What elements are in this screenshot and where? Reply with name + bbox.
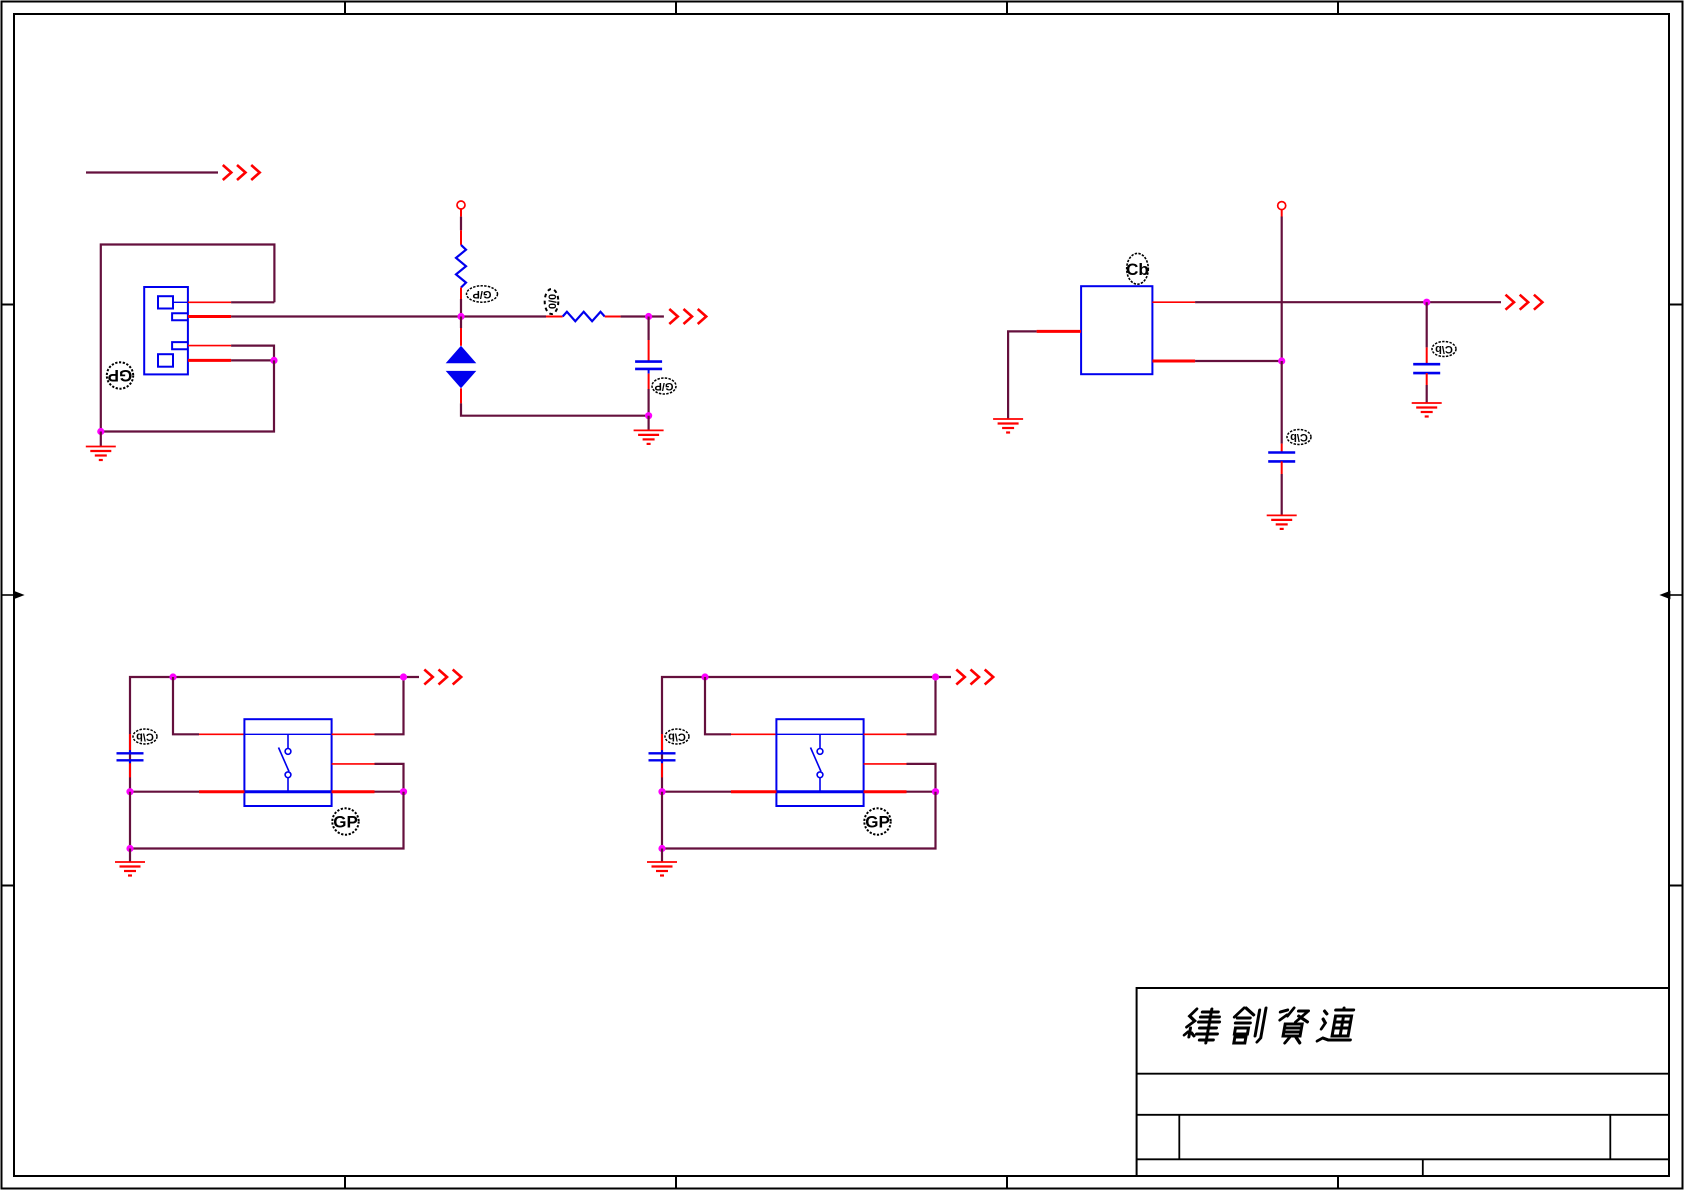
svg-text:G/P: G/P <box>473 288 492 300</box>
frame tick left 2 <box>1 885 14 887</box>
IC Cb circuit <box>993 202 1542 529</box>
wire horizontal net <box>231 315 546 317</box>
junction top rail left <box>701 673 708 680</box>
wire pin1 to top loop <box>231 301 274 303</box>
ground <box>86 432 116 461</box>
frame tick top 4 <box>1337 1 1339 14</box>
connector CN1 body <box>144 287 188 374</box>
wire to ground node <box>647 389 649 416</box>
wire right middle down <box>907 764 936 792</box>
off-page chevrons <box>424 670 461 685</box>
wire bottom net left <box>662 791 731 793</box>
frame tick bottom 4 <box>1337 1176 1339 1189</box>
svg-text:G/P: G/P <box>655 380 674 392</box>
label G/P (rotated) <box>652 378 676 394</box>
wire bottom net left <box>130 791 199 793</box>
junction ground node <box>645 412 652 419</box>
ground <box>647 849 677 876</box>
resistor R2 <box>563 312 605 321</box>
resistor R1 top lead <box>460 230 462 245</box>
pin 3 stub <box>188 345 231 347</box>
switch SW1 bottom pin line <box>244 790 331 793</box>
pin 3 pad <box>172 342 188 349</box>
glyph Tong <box>1317 1008 1356 1041</box>
wire junction C down to cap <box>1426 302 1428 347</box>
wire to output <box>621 315 664 317</box>
wire bottom net right <box>375 791 404 793</box>
resistor R2 left lead <box>546 316 563 318</box>
svg-text:C\b: C\b <box>1290 431 1308 443</box>
label GP <box>864 808 890 834</box>
svg-text:GP: GP <box>333 813 358 832</box>
svg-text:C\b: C\b <box>136 731 154 743</box>
junction top rail right <box>932 673 939 680</box>
pin 2 pad <box>172 313 188 320</box>
switch pin stub right middle <box>864 763 907 765</box>
wire to ground <box>1281 474 1283 515</box>
label GP (rotated) <box>107 362 133 388</box>
capacitor C5 top lead <box>661 734 663 750</box>
switch SW1 body <box>244 719 331 806</box>
frame tick bottom 1 <box>344 1176 346 1189</box>
junction ground node <box>126 845 133 852</box>
junction bottom net right <box>400 788 407 795</box>
power pin circle <box>457 201 465 209</box>
wire left pin to ground <box>1008 331 1037 418</box>
wire top rail <box>130 677 419 792</box>
switch circuit 1 <box>115 670 461 876</box>
label C\b (rotated) <box>133 729 157 744</box>
junction top rail left <box>169 673 176 680</box>
switch pin stub right middle <box>332 763 375 765</box>
frame tick left 1 <box>1 304 14 306</box>
wire right middle down <box>375 764 404 792</box>
wire to power rail <box>1195 360 1282 362</box>
label C\b (rotated) <box>1432 342 1456 357</box>
svg-text:0/0: 0/0 <box>546 294 558 309</box>
switch pin stub left bottom <box>199 790 244 793</box>
pin 4 stub <box>188 359 231 362</box>
capacitor C5 bottom lead <box>661 760 663 763</box>
switch SW2 bottom pin line <box>776 790 863 793</box>
frame tick bottom 3 <box>1006 1176 1008 1189</box>
label C\b (rotated) <box>1287 430 1311 445</box>
ground <box>1267 515 1297 529</box>
off-page arrow net (top-left) <box>86 165 260 180</box>
switch SW1 top pin line <box>244 733 331 735</box>
off-page chevrons <box>956 670 993 685</box>
junction bottom net left <box>658 788 665 795</box>
IC U1 body <box>1081 286 1152 374</box>
TVS diode bottom lead <box>460 388 462 403</box>
wire from power pin <box>460 209 462 217</box>
wire branch to switch top pin <box>705 677 731 734</box>
frame tick right 1 <box>1669 304 1683 306</box>
label C\b (rotated) <box>665 729 689 744</box>
pin 2 stub <box>188 315 231 318</box>
power pin circle <box>1278 202 1286 210</box>
wire to junction <box>460 299 462 317</box>
pin 1 stub <box>188 301 231 303</box>
switch pin stub right top <box>332 733 375 735</box>
wire right top to rail <box>375 677 404 734</box>
capacitor C4 top lead <box>129 734 131 750</box>
capacitor C3 bottom lead <box>1426 373 1428 385</box>
frame tick top 2 <box>675 1 677 14</box>
ground <box>634 416 664 444</box>
junction node C <box>1423 299 1430 306</box>
glyph Wei <box>1183 1009 1222 1043</box>
wire cap branch <box>647 317 649 341</box>
switch SW2 top pin line <box>776 733 863 735</box>
svg-text:GP: GP <box>108 366 133 385</box>
switch pin stub left top <box>731 733 776 735</box>
capacitor C2 top lead <box>1281 444 1283 453</box>
junction bottom net right <box>932 788 939 795</box>
svg-text:C\b: C\b <box>668 731 686 743</box>
junction ground node <box>658 845 665 852</box>
off-page chevrons <box>1506 295 1543 310</box>
capacitor C1 top lead <box>648 340 650 362</box>
wire down to bottom <box>101 360 274 431</box>
wire bottom <box>461 403 649 415</box>
svg-text:Cb: Cb <box>1126 260 1149 279</box>
title block company logo text (stylized CJK strokes) <box>1183 1008 1356 1043</box>
capacitor C4 bottom lead <box>129 760 131 763</box>
wire junction A down <box>460 317 462 329</box>
junction node A <box>457 313 464 320</box>
frame center arrow left <box>1 591 25 599</box>
junction pin3/pin4 <box>270 357 277 364</box>
svg-text:C\b: C\b <box>1435 343 1453 355</box>
wire top rail <box>662 677 951 792</box>
glyph Chuang <box>1230 1008 1266 1043</box>
switch SW2 body <box>776 719 863 806</box>
pin stub left <box>1037 330 1082 333</box>
capacitor C3 <box>1413 363 1440 366</box>
junction ground node <box>97 428 104 435</box>
switch circuit 2 <box>647 670 993 876</box>
resistor R1 bottom lead <box>460 288 462 300</box>
capacitor C2 <box>1268 451 1295 454</box>
frame tick top 1 <box>344 1 346 14</box>
wire power rail vertical <box>1281 210 1283 217</box>
pin stub bottom right <box>1152 360 1195 363</box>
pin stub top right <box>1152 301 1195 303</box>
wire branch to switch top pin <box>173 677 199 734</box>
capacitor C1 bottom lead <box>648 369 650 374</box>
label GP <box>332 808 358 834</box>
junction bottom net left <box>126 788 133 795</box>
capacitor C2 bottom lead <box>1281 461 1283 474</box>
frame center arrow right <box>1659 591 1683 599</box>
wire to output <box>1195 301 1501 303</box>
capacitor C4 <box>117 752 144 754</box>
pin 4 pad <box>158 354 173 367</box>
switch SW2 symbol <box>811 734 823 791</box>
capacitor C3 top lead <box>1426 347 1428 364</box>
ground <box>115 849 145 876</box>
capacitor C1 <box>635 360 662 363</box>
label 0/0 vertical (rotated) <box>545 289 559 314</box>
switch pin stub right bottom <box>864 790 907 793</box>
switch pin stub left top <box>199 733 244 735</box>
wire lower loop <box>662 792 936 849</box>
frame tick right 2 <box>1669 885 1683 887</box>
switch pin stub left bottom <box>731 790 776 793</box>
wire pin4 to junction <box>231 359 274 361</box>
junction node B <box>645 313 652 320</box>
glyph Zi <box>1275 1008 1310 1043</box>
frame tick top 3 <box>1006 1 1008 14</box>
TVS diode top lead <box>460 328 462 346</box>
wire rail down to cap <box>1281 361 1283 444</box>
wire bottom net right <box>907 791 936 793</box>
connector CN1 group <box>86 245 278 461</box>
wire right top to rail <box>907 677 936 734</box>
resistor R1 <box>456 245 466 288</box>
switch pin stub right top <box>864 733 907 735</box>
junction rail <box>1278 357 1285 364</box>
switch SW1 symbol <box>279 734 291 791</box>
wire lower loop <box>130 792 404 849</box>
wire pin3 corner <box>231 346 274 361</box>
svg-text:GP: GP <box>865 813 890 832</box>
middle RC/TVS circuit <box>231 201 706 444</box>
pin 1 pad <box>158 296 173 308</box>
off-page chevrons <box>223 165 260 180</box>
title block <box>1137 988 1669 1176</box>
junction top rail right <box>400 673 407 680</box>
TVS diode D1 <box>446 346 477 363</box>
ground <box>993 419 1023 433</box>
capacitor C5 <box>649 752 676 754</box>
off-page chevrons <box>669 309 706 324</box>
label Cb <box>1126 253 1149 284</box>
frame tick bottom 2 <box>675 1176 677 1189</box>
wire top loop <box>101 245 275 432</box>
resistor R2 right lead <box>605 316 621 318</box>
switch pin stub right bottom <box>332 790 375 793</box>
wire to ground <box>1426 385 1428 403</box>
ground <box>1412 403 1442 417</box>
wire <box>86 171 218 173</box>
label G/P (rotated) <box>467 286 498 302</box>
